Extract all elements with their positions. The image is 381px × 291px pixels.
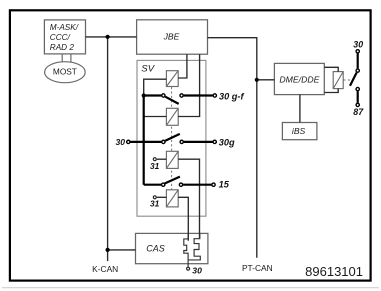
svg-text:30: 30 bbox=[192, 265, 202, 275]
svg-text:MOST: MOST bbox=[53, 67, 77, 77]
svg-text:30g: 30g bbox=[219, 138, 235, 148]
svg-text:30: 30 bbox=[115, 137, 125, 147]
svg-text:RAD 2: RAD 2 bbox=[50, 43, 75, 52]
svg-text:31: 31 bbox=[150, 161, 160, 171]
svg-text:SV: SV bbox=[141, 63, 155, 74]
svg-text:M-ASK/: M-ASK/ bbox=[50, 23, 79, 32]
svg-text:89613101: 89613101 bbox=[305, 264, 363, 279]
svg-text:iBS: iBS bbox=[292, 126, 306, 136]
svg-text:30: 30 bbox=[353, 40, 363, 50]
svg-text:DME/DDE: DME/DDE bbox=[279, 75, 319, 85]
svg-text:87: 87 bbox=[353, 107, 364, 117]
svg-text:K-CAN: K-CAN bbox=[92, 264, 118, 274]
svg-text:30 g-f: 30 g-f bbox=[219, 91, 244, 101]
svg-text:PT-CAN: PT-CAN bbox=[242, 263, 273, 273]
svg-text:CAS: CAS bbox=[146, 243, 165, 253]
svg-text:JBE: JBE bbox=[163, 31, 180, 41]
svg-text:CCC/: CCC/ bbox=[50, 33, 71, 42]
svg-text:15: 15 bbox=[219, 180, 230, 190]
svg-text:31: 31 bbox=[150, 199, 160, 209]
